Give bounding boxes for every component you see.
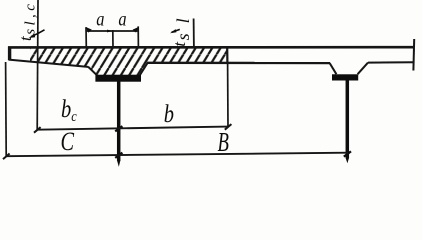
svg-text:B: B <box>218 128 229 158</box>
svg-text:b: b <box>164 100 174 127</box>
svg-text:a: a <box>96 8 104 30</box>
svg-text:C: C <box>61 127 75 156</box>
svg-text:a: a <box>118 8 126 30</box>
svg-text:tsl: tsl <box>170 8 193 46</box>
